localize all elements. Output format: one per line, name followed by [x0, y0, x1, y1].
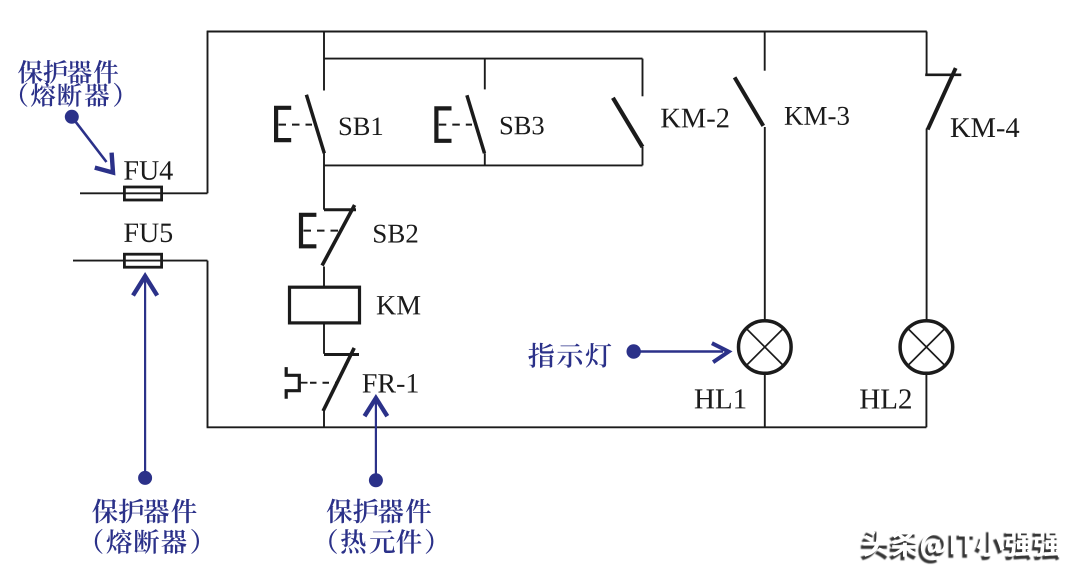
label KM: [377, 296, 421, 314]
label SB2: [374, 225, 417, 243]
wire FU4 branch: [80, 192, 208, 194]
wire SB3 bottom stub: [484, 153, 486, 165]
contact KM-3 blade: [735, 77, 764, 126]
pushbutton SB1 contact blade: [306, 95, 324, 154]
pushbutton SB1 actuator E: [274, 106, 291, 143]
label HL2: [860, 389, 911, 408]
lamp HL2: [900, 321, 953, 374]
label HL1: [695, 389, 746, 408]
annotation arrow shaft to FR-1: [375, 402, 377, 480]
wire bottom rail: [207, 426, 927, 428]
contact KM-2 blade: [613, 98, 643, 147]
fuse FU5: [124, 254, 161, 267]
annotation text bottom-left line1 保护器件: [92, 499, 196, 524]
pushbutton SB3 actuator E: [434, 106, 451, 143]
annotation text FR line2 （热元件）: [329, 529, 433, 554]
annotation arrow shaft to FU4: [72, 117, 107, 162]
wire KM coil to FR-1: [323, 323, 325, 354]
wire lamp HL1 to bottom rail: [764, 373, 766, 427]
wire SB3 top stub: [484, 59, 486, 90]
wire second rail: [324, 58, 643, 60]
annotation dot (FR-1 callout): [369, 473, 383, 487]
annotation arrow shaft to FU5: [144, 280, 146, 478]
annotation dot (FU5 callout): [138, 471, 152, 485]
wire SB2 to KM coil: [323, 267, 325, 288]
annotation text top-left line1 保护器件: [18, 60, 118, 84]
contact KM-4 tick: [925, 74, 961, 77]
wire FU5 branch: [73, 260, 208, 262]
thermal relay FR-1 tick: [324, 353, 359, 356]
annotation dot (FU4 callout): [65, 110, 79, 124]
thermal relay FR-1 heater tick: [299, 382, 307, 384]
wire left vertical upper (FU4 to top rail): [207, 31, 209, 194]
wire KM-2 bottom stub: [642, 147, 644, 165]
wire SB1 bottom stub: [323, 153, 325, 210]
pushbutton SB2 tick: [324, 208, 356, 211]
thermal relay FR-1 contact blade: [323, 348, 354, 411]
wire lamp HL2 to bottom rail: [925, 373, 927, 427]
fuse FU4: [124, 187, 161, 200]
label SB1: [340, 118, 382, 136]
annotation arrowhead at FU4: [95, 153, 113, 173]
annotation arrowhead at FR-1: [365, 398, 388, 416]
thermal relay FR-1 heater element: [286, 367, 299, 399]
thermal relay FR-1 dashed link: [310, 382, 336, 384]
contactor coil KM: [290, 287, 360, 323]
annotation text bottom-left line2 （熔断器）: [95, 529, 199, 554]
wire SB1 top stub: [323, 32, 325, 91]
label FR-1: [363, 374, 418, 393]
wire KM-4 top stub: [926, 32, 928, 75]
annotation text 指示灯: [528, 343, 611, 368]
annotation arrowhead at HL1: [712, 343, 729, 362]
pushbutton SB2 actuator E: [299, 213, 317, 249]
label KM-2: [661, 109, 728, 128]
wire parallel group bottom rail: [324, 164, 643, 166]
annotation text top-left line2 （熔断器）: [20, 83, 122, 107]
annotation text FR line1 保护器件: [327, 499, 431, 524]
wire KM-3 top stub: [764, 32, 766, 71]
watermark 头条@IT小强强 face: [863, 528, 1062, 560]
contact KM-4 blade: [928, 68, 956, 129]
lamp HL1: [739, 321, 792, 374]
annotation arrow shaft to HL1: [640, 350, 723, 353]
wire FR-1 to bottom rail: [323, 411, 325, 427]
label SB3: [501, 117, 544, 135]
label FU5: [124, 224, 172, 243]
wire KM-4 to lamp HL2: [926, 129, 928, 321]
wire KM-2 top stub: [642, 59, 644, 97]
label KM-4: [951, 118, 1019, 137]
label KM-3: [785, 107, 849, 125]
pushbutton SB3 dashed link: [439, 124, 472, 126]
watermark 头条@IT小强强 shadow: [860, 532, 1059, 564]
wire left vertical lower (FU5 to bottom rail): [207, 261, 209, 428]
annotation arrowhead at FU5: [133, 276, 157, 295]
wire KM-3 to lamp HL1: [764, 127, 766, 321]
wire top rail: [207, 31, 927, 33]
label FU4: [124, 161, 173, 180]
annotation dot (lamp callout): [627, 344, 641, 358]
pushbutton SB1 dashed link: [279, 124, 313, 126]
pushbutton SB3 contact blade: [467, 95, 485, 153]
pushbutton SB2 dashed link: [304, 230, 339, 232]
pushbutton SB2 contact blade: [322, 205, 355, 266]
